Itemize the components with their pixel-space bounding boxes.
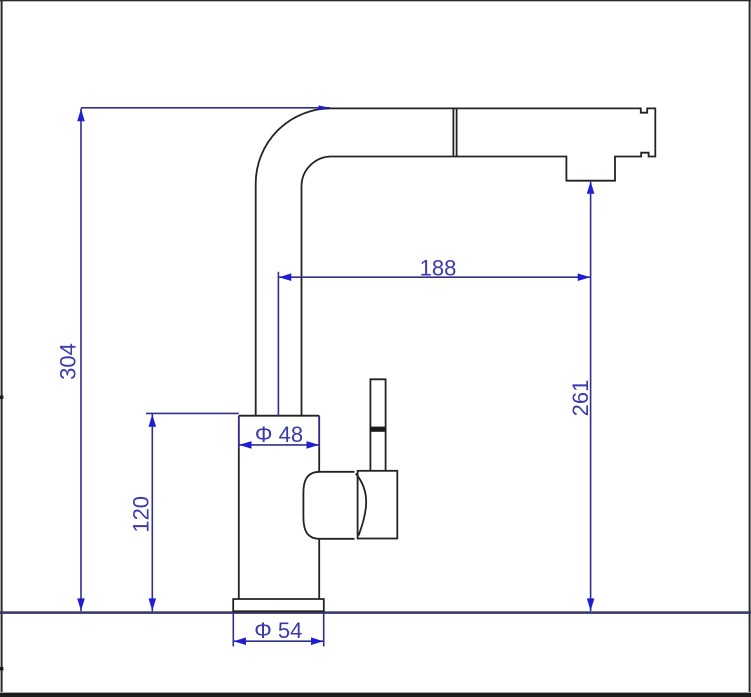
arrow phi54 right [311, 637, 324, 645]
left border fold tick lower [0, 667, 3, 670]
svg-text:261: 261 [568, 380, 593, 417]
left border fold tick upper [0, 396, 3, 399]
dim 188 line [278, 276, 590, 278]
dim 120 top extension line [146, 412, 239, 414]
arrow 304 top up [77, 109, 85, 122]
arrow 120 top up [149, 414, 157, 427]
arrow 304 bottom down [77, 598, 85, 611]
arrow 261 bottom down [587, 598, 595, 611]
arrow 188 left [279, 273, 292, 281]
svg-text:304: 304 [55, 343, 80, 380]
handle cap ball [303, 472, 354, 539]
body right edge [318, 416, 320, 599]
ground line [0, 611, 751, 614]
body left edge [238, 416, 240, 599]
dim phi54 left extension [232, 613, 234, 647]
arrow phi54 left [234, 637, 247, 645]
dim phi54 right extension [323, 613, 325, 647]
body top edge [239, 415, 319, 417]
spout joint line 2 [456, 108, 458, 156]
handle lever block [358, 471, 398, 539]
top border [0, 0, 751, 1]
handle rod [370, 379, 385, 471]
right border [749, 0, 751, 692]
dim phi48 line [239, 444, 319, 446]
dim 188 left extension line [277, 272, 279, 416]
dim 261 line [590, 181, 592, 611]
faucet spout and neck outline with end notches and outlet [256, 108, 656, 415]
svg-text:Φ 48: Φ 48 [255, 422, 303, 447]
arrow 261 top up [587, 181, 595, 194]
svg-text:120: 120 [128, 496, 153, 533]
dim phi48 right extension [318, 416, 320, 449]
left border [1, 0, 3, 692]
dim phi48 left extension [238, 416, 240, 449]
handle joint curve [356, 474, 366, 536]
arrow 120 bottom down [149, 598, 157, 611]
arrow phi48 left [239, 441, 252, 449]
arrow 188 right [578, 273, 591, 281]
dim 120 line [151, 414, 153, 611]
dim 304 line [80, 108, 82, 611]
svg-text:188: 188 [420, 256, 457, 281]
dim 304 top extension line [81, 107, 330, 109]
svg-text:Φ 54: Φ 54 [254, 618, 302, 643]
base flange [233, 599, 324, 611]
arrow phi48 right [307, 441, 320, 449]
handle rod band [370, 427, 385, 432]
dim phi54 line [233, 640, 323, 642]
bottom border bar [0, 693, 751, 697]
arrow 304 ext small right [319, 105, 330, 110]
spout joint line 1 [452, 108, 454, 156]
